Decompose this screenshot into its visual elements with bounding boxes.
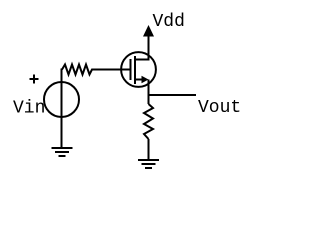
source V1 Vin — [44, 82, 79, 117]
plus polarity label — [30, 75, 39, 84]
svg-text:Vdd: Vdd — [153, 12, 185, 32]
Vdd arrow — [143, 25, 154, 48]
ground GND1 — [52, 148, 73, 156]
wire Vin bottom — [61, 117, 63, 148]
wire drain — [148, 48, 150, 61]
resistor R1 (gate) — [62, 65, 96, 75]
wire to ground — [148, 139, 150, 160]
resistor R2 (source) — [144, 104, 153, 139]
wire gate lead — [96, 69, 131, 71]
wire Vin top — [61, 70, 64, 83]
svg-text:Vin: Vin — [13, 99, 45, 119]
wire output — [149, 94, 197, 96]
ground GND2 — [138, 160, 159, 168]
wire source — [148, 80, 150, 105]
svg-text:Vout: Vout — [198, 98, 241, 118]
transistor M1 (NMOS) — [121, 52, 156, 87]
